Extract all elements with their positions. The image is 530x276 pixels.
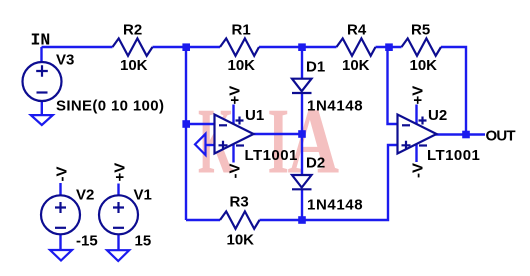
svg-text:R4: R4	[347, 22, 367, 39]
svg-text:LT1001: LT1001	[245, 147, 298, 164]
diode D1	[292, 79, 312, 93]
svg-text:R2: R2	[123, 22, 142, 39]
svg-text:1N4148: 1N4148	[307, 98, 363, 115]
wire D1 cathode to node to D2 anode	[301, 93, 303, 175]
svg-text:D2: D2	[306, 155, 325, 172]
wire V2 top pin	[59, 183, 61, 196]
svg-text:V3: V3	[56, 52, 74, 69]
wire V2 to ground	[59, 234, 61, 250]
wire top row left	[42, 46, 113, 48]
wire U2 V- pin	[415, 144, 417, 162]
wire R4 to R5	[376, 46, 402, 48]
svg-text:R3: R3	[230, 194, 249, 211]
svg-text:15: 15	[135, 233, 152, 250]
svg-text:I: I	[268, 88, 290, 193]
svg-text:1N4148: 1N4148	[307, 197, 363, 214]
wire V1 top pin	[117, 184, 119, 197]
svg-text:U1: U1	[245, 107, 264, 124]
node junction OUT	[462, 131, 470, 139]
resistor R5	[402, 38, 442, 55]
wire U2 V+ pin	[415, 105, 417, 125]
wire V3 to ground	[41, 101, 43, 115]
wire IN vertical from V3	[40, 47, 42, 63]
svg-text:-V: -V	[227, 164, 244, 179]
svg-text:SINE(0 10 100): SINE(0 10 100)	[56, 98, 164, 115]
node junction D1/D2/U1 out	[298, 130, 306, 138]
wire R5 to output node	[441, 47, 466, 135]
op-amp U2	[398, 115, 437, 154]
svg-text:10K: 10K	[228, 57, 256, 74]
svg-text:10K: 10K	[410, 57, 438, 74]
ground at U1 noninverting input (rotated)	[195, 134, 206, 155]
node junction U1 inverting	[182, 120, 190, 128]
wire U1 output to diode node	[254, 133, 303, 135]
wire U1 V+ pin	[232, 105, 234, 125]
wire node to U1 inverting input	[186, 123, 215, 125]
wire R3 to node	[260, 219, 303, 221]
watermark KIA	[198, 88, 339, 194]
diode D2	[292, 175, 312, 189]
svg-text:OUT: OUT	[486, 128, 516, 145]
svg-text:V2: V2	[76, 187, 94, 204]
svg-text:LT1001: LT1001	[427, 147, 480, 164]
wire diode column top	[301, 47, 303, 79]
svg-text:+V: +V	[410, 86, 427, 105]
node junction R1/R4/D1	[298, 43, 306, 51]
svg-text:-V: -V	[410, 163, 427, 178]
wire U1 V- pin	[232, 144, 234, 163]
wire bottom row to U2 noninverting input	[302, 145, 398, 220]
wire U2 output to OUT	[436, 133, 486, 135]
voltage source V1	[99, 195, 138, 234]
resistor R4	[337, 38, 376, 55]
svg-text:IN: IN	[31, 31, 51, 50]
node junction R4/R5	[385, 43, 393, 51]
wire left vertical drop	[185, 47, 187, 220]
resistor R3	[220, 211, 260, 228]
wire R4R5 node to U2 inverting input	[388, 47, 398, 124]
svg-text:V1: V1	[134, 187, 152, 204]
svg-text:-V: -V	[54, 167, 71, 182]
node junction D2/R3	[298, 216, 306, 224]
wire bottom left to R3	[186, 219, 220, 221]
node junction R2/R1	[182, 43, 190, 51]
svg-text:U2: U2	[428, 107, 447, 124]
voltage source V2	[41, 195, 80, 234]
svg-text:10K: 10K	[227, 232, 255, 249]
svg-text:R1: R1	[232, 22, 251, 39]
wire R2 to R1	[153, 46, 221, 48]
svg-text:+V: +V	[227, 86, 244, 105]
svg-text:10K: 10K	[342, 57, 370, 74]
ground under V2	[50, 250, 72, 261]
voltage source V3	[23, 62, 62, 101]
wire D2 cathode to bottom node	[301, 189, 303, 220]
svg-text:R5: R5	[411, 22, 430, 39]
resistor R2	[113, 38, 153, 55]
ground under V1	[107, 250, 129, 261]
svg-text:10K: 10K	[120, 57, 148, 74]
op-amp U1	[215, 115, 254, 154]
svg-text:D1: D1	[306, 59, 325, 76]
wire V1 to ground	[117, 234, 119, 250]
svg-text:-15: -15	[76, 233, 98, 250]
wire R1 to R4	[259, 46, 337, 48]
ground under V3	[31, 115, 53, 125]
svg-text:+V: +V	[112, 163, 129, 182]
wire ground arrow to U1 noninverting input	[206, 144, 215, 146]
resistor R1	[220, 38, 259, 55]
